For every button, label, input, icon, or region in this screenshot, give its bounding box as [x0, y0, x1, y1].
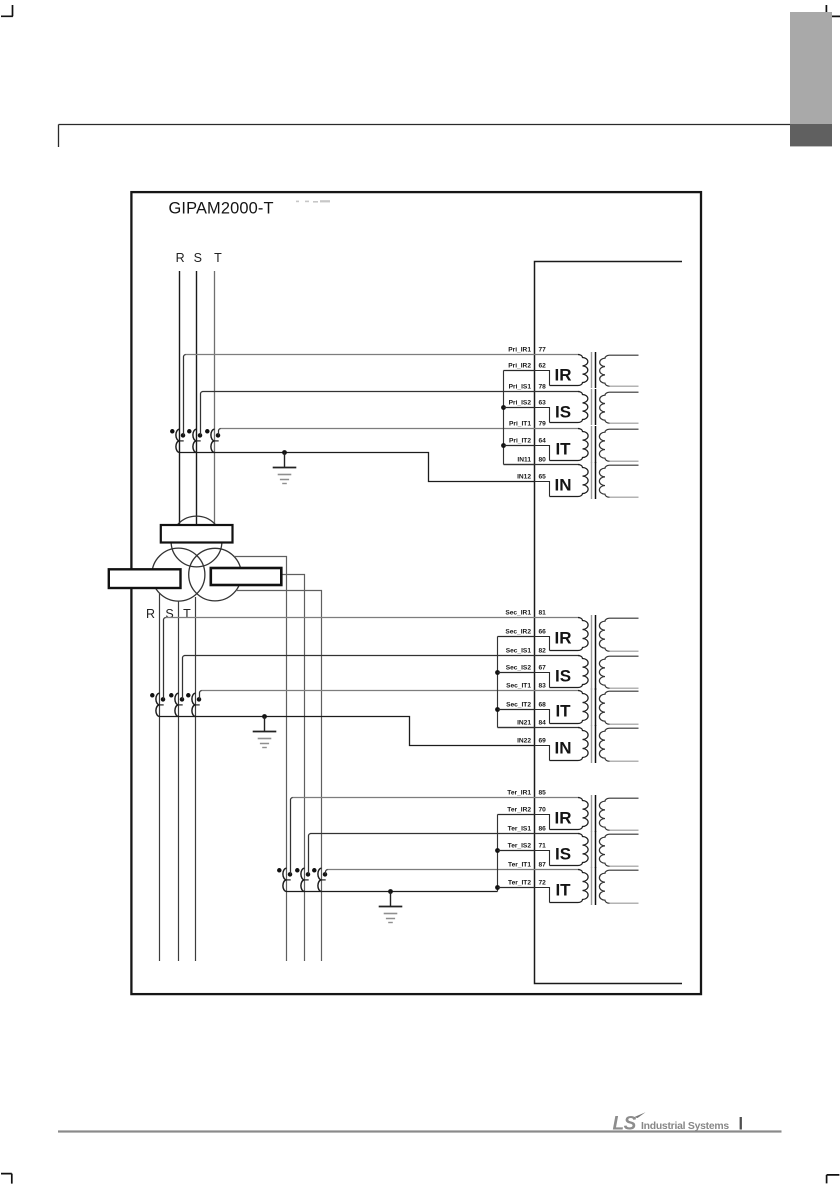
- svg-text:82: 82: [539, 648, 547, 655]
- transformer T1 label box (right): [211, 568, 281, 585]
- svg-text:68: 68: [539, 702, 547, 709]
- node on bus (tertiary) y=887.5: [495, 885, 500, 890]
- svg-text:86: 86: [539, 826, 547, 833]
- wire phase R secondary: [159, 593, 161, 961]
- transformer T1 label box (top): [161, 525, 233, 543]
- svg-text:IN22: IN22: [517, 738, 531, 745]
- svg-text:T: T: [214, 251, 222, 265]
- wire phase S secondary: [178, 601, 180, 961]
- wire common return (tertiary CTs) to bus: [287, 891, 498, 893]
- svg-text:Ter_IS1: Ter_IS1: [508, 826, 532, 833]
- coil IT core bars: [591, 426, 593, 463]
- wire Sec_IS1 (CT lead): [183, 656, 186, 700]
- wire common return (primary CTs) to terminal 65: [180, 453, 535, 482]
- node: CT common junction (secondary): [262, 714, 267, 719]
- relay coil IT (primary) : left winding: [550, 429, 589, 461]
- coil IT secondary winding: [599, 429, 638, 461]
- svg-text:77: 77: [539, 347, 547, 354]
- svg-text:84: 84: [539, 720, 547, 727]
- CT tertiary phase T: [318, 868, 322, 891]
- svg-text:Ter_IS2: Ter_IS2: [508, 843, 532, 850]
- svg-text:IN: IN: [555, 739, 572, 758]
- svg-text:LS: LS: [613, 1114, 637, 1135]
- svg-text:64: 64: [539, 438, 547, 445]
- svg-text:S: S: [194, 251, 202, 265]
- coil IR core bars: [591, 795, 593, 832]
- bus: residual common bracket (secondary): [497, 637, 499, 728]
- coil IT secondary winding: [599, 870, 638, 903]
- wire Sec_IR1: [166, 617, 580, 619]
- CT tertiary phase R: [283, 868, 287, 891]
- svg-text:IN21: IN21: [517, 720, 531, 727]
- diagram frame: [131, 192, 701, 994]
- relay coil IT (secondary) : left winding: [550, 691, 589, 724]
- svg-text:IT: IT: [555, 881, 571, 900]
- svg-text:Pri_IS1: Pri_IS1: [509, 384, 532, 391]
- logo flag triangle: [634, 1112, 646, 1118]
- ground (tertiary): [390, 892, 392, 907]
- bus: residual common bracket (primary): [503, 371, 505, 465]
- svg-text:63: 63: [539, 400, 547, 407]
- transformer T1 label box (left): [109, 569, 181, 588]
- svg-text:IN12: IN12: [517, 474, 531, 481]
- coil IT core bars: [591, 867, 593, 905]
- wire phase S primary: [196, 271, 198, 525]
- svg-text:IT: IT: [555, 440, 571, 459]
- wire Sec_IS1: [185, 655, 580, 657]
- logo separator bar: [740, 1117, 742, 1130]
- svg-text:Ter_IR1: Ter_IR1: [507, 790, 531, 797]
- chapter tab (light): [790, 12, 832, 124]
- svg-text:Industrial Systems: Industrial Systems: [641, 1121, 729, 1132]
- svg-text:Sec_IT2: Sec_IT2: [506, 702, 531, 709]
- svg-text:GIPAM2000-T: GIPAM2000-T: [169, 200, 274, 218]
- relay coil IR (tertiary) : left winding: [550, 798, 589, 830]
- coil IN secondary winding: [599, 728, 638, 761]
- wire common return (secondary CTs) to terminal 69: [160, 717, 535, 746]
- ground (primary): [284, 453, 286, 468]
- svg-text:IR: IR: [555, 366, 572, 385]
- chapter tab (dark): [790, 124, 832, 146]
- transformer T1 : secondary winding circle: [152, 548, 205, 601]
- coil IN core bars: [591, 462, 593, 499]
- relay coil IT (tertiary) : left winding: [550, 870, 589, 903]
- wire phase R primary: [179, 271, 181, 525]
- bus: residual common bracket (tertiary): [497, 815, 499, 892]
- node on bus (secondary) y=709.5: [495, 707, 500, 712]
- svg-text:S: S: [165, 607, 173, 621]
- svg-text:IS: IS: [555, 667, 571, 686]
- svg-text:Pri_IR2: Pri_IR2: [508, 363, 531, 370]
- coil IS core bars: [591, 653, 593, 690]
- svg-text:Pri_IR1: Pri_IR1: [508, 347, 531, 354]
- wire Pri_IS1 (CT lead): [201, 392, 204, 436]
- wire Ter_IR1: [293, 797, 580, 799]
- svg-text:R: R: [176, 251, 185, 265]
- CT secondary phase S: [175, 693, 179, 716]
- relay box (GIPAM2000-T unit): [535, 262, 683, 984]
- CT secondary phase T: [192, 693, 196, 716]
- coil IN core bars: [591, 725, 593, 763]
- node on bus (primary) y=445.5: [501, 443, 506, 448]
- relay coil IS (primary) : left winding: [550, 392, 588, 423]
- relay coil IN (secondary) : left winding: [550, 728, 589, 761]
- coil IT secondary winding: [599, 691, 638, 724]
- wire phase T secondary: [195, 597, 197, 961]
- coil IT core bars: [591, 688, 593, 726]
- svg-text:Ter_IT1: Ter_IT1: [508, 862, 531, 869]
- CT primary phase S: [193, 429, 197, 452]
- relay coil IN (primary) : left winding: [550, 465, 589, 497]
- svg-text:Pri_IS2: Pri_IS2: [509, 400, 532, 407]
- svg-text:72: 72: [539, 880, 547, 887]
- wire tertiary lead 3: [236, 591, 322, 962]
- crop mark top-right: [826, 5, 840, 16]
- svg-text:Pri_IT1: Pri_IT1: [509, 421, 531, 428]
- CT secondary phase R: [156, 693, 160, 716]
- svg-text:Pri_IT2: Pri_IT2: [509, 438, 531, 445]
- wire IN11 feed: [504, 464, 580, 466]
- header rule: [59, 125, 831, 148]
- coil IR secondary winding: [599, 798, 638, 830]
- node on bus (primary) y=407.5: [501, 405, 506, 410]
- svg-text:70: 70: [539, 807, 547, 814]
- svg-text:66: 66: [539, 629, 547, 636]
- svg-text:IR: IR: [555, 629, 572, 648]
- svg-text:IS: IS: [555, 403, 571, 422]
- svg-text:IN: IN: [555, 476, 572, 495]
- relay coil IR (primary) : left winding: [550, 355, 588, 386]
- svg-text:65: 65: [539, 474, 547, 481]
- svg-text:T: T: [183, 607, 191, 621]
- svg-text:IS: IS: [555, 845, 571, 864]
- svg-text:85: 85: [539, 790, 547, 797]
- coil IR secondary winding: [599, 618, 638, 651]
- node: CT common junction (tertiary): [388, 889, 393, 894]
- faint erased subtitle marks: [296, 200, 330, 202]
- wire Pri_IT1: [221, 428, 580, 430]
- wire Pri_IR1: [186, 354, 580, 356]
- svg-text:78: 78: [539, 384, 547, 391]
- relay coil IS (secondary) : left winding: [550, 656, 589, 688]
- svg-text:Ter_IT2: Ter_IT2: [508, 880, 531, 887]
- svg-text:Sec_IT1: Sec_IT1: [506, 683, 531, 690]
- node: CT common junction (primary): [282, 450, 287, 455]
- ground (secondary): [264, 717, 266, 732]
- svg-text:67: 67: [539, 665, 547, 672]
- svg-text:Sec_IS1: Sec_IS1: [506, 648, 532, 655]
- footer rule: [58, 1130, 782, 1132]
- wire IN21 feed: [498, 727, 580, 729]
- svg-text:79: 79: [539, 421, 547, 428]
- crop mark bottom-left: [1, 1174, 12, 1184]
- coil IN secondary winding: [599, 465, 638, 497]
- svg-text:69: 69: [539, 738, 547, 745]
- svg-text:87: 87: [539, 862, 547, 869]
- wire tertiary lead 1: [234, 557, 286, 962]
- crop mark bottom-right: [827, 1175, 840, 1184]
- wire Sec_IT1: [202, 690, 580, 692]
- wire Ter_IR1 (CT lead): [291, 798, 294, 875]
- svg-text:80: 80: [539, 457, 547, 464]
- wire phase T primary: [214, 271, 216, 525]
- wire Pri_IS1: [203, 391, 580, 393]
- crop mark top-left: [1, 5, 13, 16]
- transformer T1 : tertiary winding circle: [189, 548, 242, 601]
- svg-text:IR: IR: [555, 809, 572, 828]
- svg-text:Sec_IR1: Sec_IR1: [505, 610, 531, 617]
- wire Ter_IT1 (CT lead): [326, 870, 329, 875]
- CT tertiary phase S: [301, 868, 305, 891]
- svg-text:81: 81: [539, 610, 547, 617]
- svg-text:Sec_IR2: Sec_IR2: [505, 629, 531, 636]
- svg-text:R: R: [146, 607, 155, 621]
- svg-text:71: 71: [539, 843, 547, 850]
- svg-text:Sec_IS2: Sec_IS2: [506, 665, 532, 672]
- coil IS core bars: [591, 389, 593, 425]
- wire Ter_IS1 (CT lead): [309, 834, 312, 875]
- coil IS secondary winding: [600, 392, 639, 423]
- coil IS core bars: [591, 831, 593, 868]
- svg-text:IT: IT: [555, 702, 571, 721]
- coil IR core bars: [591, 615, 593, 653]
- coil IR secondary winding: [600, 355, 639, 386]
- wire Sec_IT1 (CT lead): [200, 691, 203, 700]
- CT primary phase T: [211, 429, 215, 452]
- node on bus (tertiary) y=850.5: [495, 848, 500, 853]
- relay coil IR (secondary) : left winding: [550, 618, 589, 651]
- coil IS secondary winding: [599, 656, 638, 688]
- wire Ter_IS1: [311, 833, 580, 835]
- coil IR core bars: [591, 352, 593, 388]
- wire tertiary lead 2: [281, 575, 304, 962]
- svg-text:IN11: IN11: [517, 457, 531, 464]
- wire Pri_IR1 (CT lead): [184, 355, 187, 436]
- wire Ter_IT1: [328, 869, 580, 871]
- node on bus (secondary) y=672.5: [495, 670, 500, 675]
- coil IS secondary winding: [599, 834, 638, 866]
- wire Sec_IR1 (CT lead): [164, 618, 167, 700]
- wire Pri_IT1 (CT lead): [219, 429, 222, 436]
- svg-text:62: 62: [539, 363, 547, 370]
- svg-text:83: 83: [539, 683, 547, 690]
- svg-text:Ter_IR2: Ter_IR2: [507, 807, 531, 814]
- relay coil IS (tertiary) : left winding: [550, 834, 589, 866]
- transformer T1 : primary winding circle: [171, 516, 222, 567]
- CT primary phase R: [176, 429, 180, 452]
